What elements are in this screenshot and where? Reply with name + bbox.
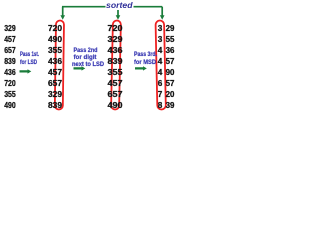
- svg-text:355: 355: [4, 90, 16, 99]
- svg-text:sorted: sorted: [106, 0, 133, 10]
- svg-text:39: 39: [166, 101, 175, 110]
- svg-text:6: 6: [158, 79, 163, 88]
- svg-text:57: 57: [166, 79, 175, 88]
- svg-text:329: 329: [108, 35, 123, 44]
- svg-text:29: 29: [166, 24, 175, 33]
- svg-text:for digit: for digit: [74, 54, 98, 61]
- svg-text:20: 20: [166, 90, 175, 99]
- svg-text:457: 457: [48, 68, 62, 77]
- svg-text:657: 657: [48, 79, 62, 88]
- svg-text:329: 329: [48, 90, 62, 99]
- svg-text:720: 720: [4, 79, 16, 88]
- svg-text:3: 3: [158, 24, 163, 33]
- svg-text:657: 657: [4, 46, 16, 55]
- svg-text:3: 3: [158, 35, 163, 44]
- svg-text:7: 7: [158, 90, 163, 99]
- svg-text:490: 490: [4, 101, 16, 110]
- svg-text:839: 839: [48, 101, 62, 110]
- svg-text:436: 436: [48, 57, 62, 66]
- svg-text:490: 490: [108, 101, 123, 110]
- svg-text:720: 720: [48, 24, 62, 33]
- svg-text:329: 329: [4, 24, 16, 33]
- svg-text:Pass 3rd.: Pass 3rd.: [134, 51, 157, 58]
- svg-text:355: 355: [108, 68, 123, 77]
- svg-text:355: 355: [48, 46, 62, 55]
- svg-text:57: 57: [166, 57, 175, 66]
- svg-text:490: 490: [48, 35, 62, 44]
- svg-text:720: 720: [108, 24, 123, 33]
- svg-text:8: 8: [158, 101, 163, 110]
- svg-text:839: 839: [4, 57, 16, 66]
- svg-text:4: 4: [158, 57, 163, 66]
- svg-text:457: 457: [4, 35, 16, 44]
- svg-text:839: 839: [108, 57, 123, 66]
- svg-text:457: 457: [108, 79, 123, 88]
- svg-text:for MSD: for MSD: [134, 59, 156, 66]
- svg-text:4: 4: [158, 68, 163, 77]
- svg-text:36: 36: [166, 46, 175, 55]
- svg-text:Pass 2nd: Pass 2nd: [74, 47, 98, 54]
- svg-text:for LSD: for LSD: [20, 59, 37, 66]
- svg-text:436: 436: [4, 68, 16, 77]
- svg-text:55: 55: [166, 35, 175, 44]
- svg-text:436: 436: [108, 46, 123, 55]
- svg-text:next to LSD: next to LSD: [72, 61, 104, 68]
- svg-text:90: 90: [166, 68, 175, 77]
- svg-text:657: 657: [108, 90, 123, 99]
- svg-text:Pass 1st.: Pass 1st.: [20, 51, 39, 58]
- svg-text:4: 4: [158, 46, 163, 55]
